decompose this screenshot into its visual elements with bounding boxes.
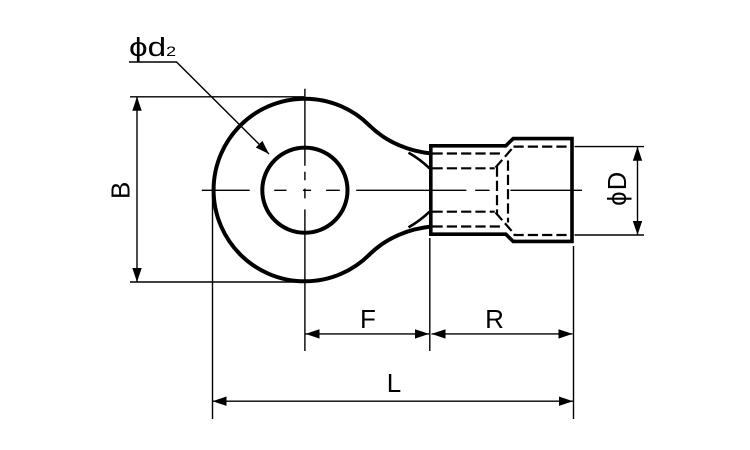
- dimension R: left arrowhead: [432, 329, 446, 338]
- hidden line: funnel cone bottom diagonal: [496, 213, 515, 235]
- dimension B: dimension line: [136, 97, 138, 282]
- hidden line: insulation bore top: [514, 146, 571, 148]
- dimension phi D: top extension line: [575, 146, 645, 148]
- hidden line: insulation bore bottom: [514, 234, 571, 236]
- extension line right for R and L: [573, 246, 575, 419]
- svg-text:L: L: [387, 368, 401, 398]
- vertical centerline and F extension: [304, 89, 306, 351]
- dimension F: dimension line: [306, 333, 430, 335]
- dimension B: bottom arrowhead: [132, 268, 141, 282]
- dimension L: dimension line: [213, 400, 574, 402]
- dimension B: top extension line: [130, 96, 304, 98]
- dimension phi D: top arrowhead: [633, 147, 642, 161]
- ring inner hole circle: [262, 148, 347, 233]
- horizontal centerline: [202, 189, 582, 191]
- leader arrowhead phi d2: [256, 141, 269, 154]
- hidden line: wire bore top: [433, 167, 495, 169]
- hidden line: sleeve seam bottom: [433, 225, 503, 227]
- dimension L: left extension line: [212, 194, 214, 419]
- dimension phi D: bottom arrowhead: [633, 221, 642, 235]
- dimension R: right arrowhead: [559, 329, 573, 338]
- svg-text:B: B: [106, 182, 136, 199]
- dimension B: bottom extension line: [130, 281, 307, 283]
- dimension F: left arrowhead: [306, 329, 320, 338]
- hidden line: funnel near edge vertical: [496, 167, 498, 214]
- dimension F: right arrowhead: [415, 329, 429, 338]
- svg-text:F: F: [360, 304, 376, 334]
- svg-text:R: R: [485, 304, 504, 334]
- svg-text:ϕD: ϕD: [604, 171, 632, 206]
- wire barrel outline: [431, 139, 572, 242]
- extension line barrel left edge for F and R: [429, 238, 431, 351]
- hidden line: funnel far edge vertical: [507, 161, 509, 223]
- hidden line: wire bore bottom: [433, 211, 495, 213]
- hidden line: funnel cone top diagonal: [496, 146, 515, 168]
- dimension L: left arrowhead: [213, 397, 227, 406]
- hidden line: sleeve seam top: [433, 152, 503, 154]
- ring outer outline with transition wings: [214, 99, 431, 282]
- leader line for phi d2: [129, 62, 269, 154]
- dimension phi D: dimension line: [637, 147, 639, 235]
- dimension L: right arrowhead: [559, 397, 573, 406]
- seam pocket curve bottom: [409, 212, 430, 228]
- seam pocket curve top: [409, 153, 430, 169]
- dimension B: top arrowhead: [132, 97, 141, 111]
- dimension R: dimension line: [432, 333, 573, 335]
- dimension phi D: bottom extension line: [575, 234, 645, 236]
